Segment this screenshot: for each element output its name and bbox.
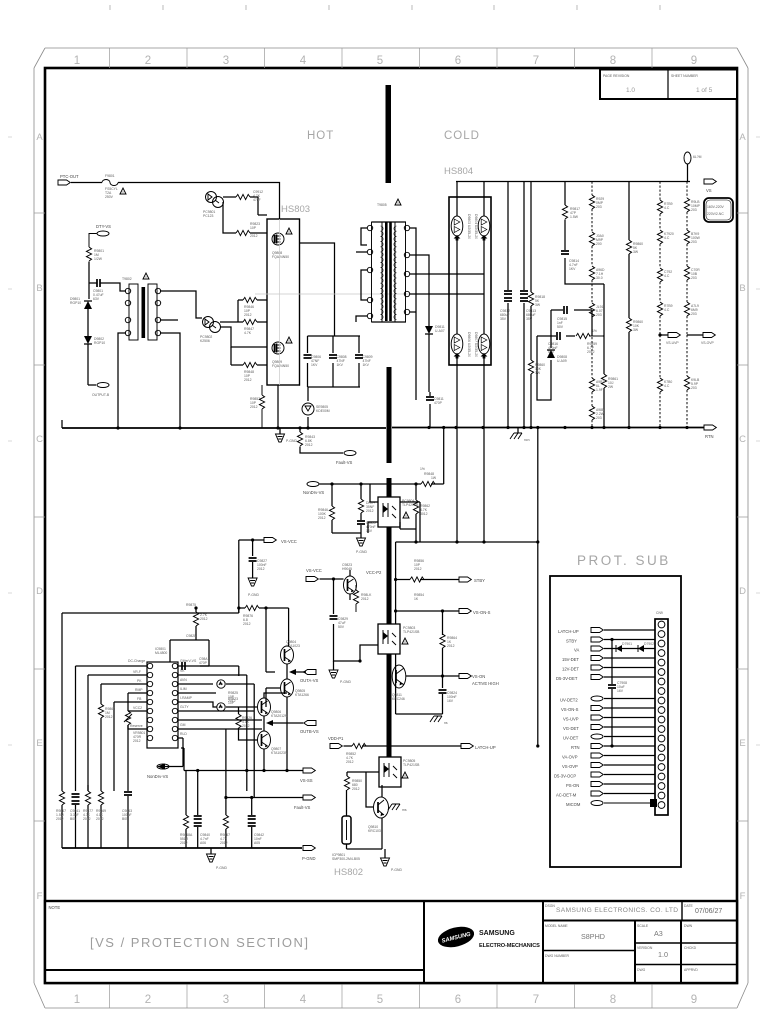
svg-text:1K: 1K bbox=[414, 597, 419, 601]
svg-text:PK: PK bbox=[137, 679, 142, 683]
svg-text:50V: 50V bbox=[338, 625, 345, 629]
svg-text:D7901: D7901 bbox=[622, 642, 632, 646]
node VS-UVP ps bbox=[563, 715, 655, 722]
svg-text:16V: 16V bbox=[447, 699, 454, 703]
resistor R9856 labels bbox=[414, 559, 424, 571]
svg-text:D5-3V-OCP: D5-3V-OCP bbox=[554, 774, 576, 779]
svg-text:07/06/27: 07/06/27 bbox=[695, 908, 722, 915]
svg-text:VCC-P2: VCC-P2 bbox=[366, 570, 382, 575]
svg-text:MICOM: MICOM bbox=[566, 802, 581, 807]
svg-text:KRC103: KRC103 bbox=[368, 829, 381, 833]
svg-text:A3: A3 bbox=[654, 929, 663, 938]
diode D9802 bbox=[84, 330, 105, 385]
wire Q drain to rail bbox=[277, 385, 279, 428]
svg-text:KTA1023: KTA1023 bbox=[286, 644, 300, 648]
svg-text:TLP421SB: TLP421SB bbox=[402, 503, 419, 507]
P-GND symbol ic rail bbox=[207, 848, 228, 870]
chassis ground mid bbox=[430, 716, 448, 725]
svg-text:3W: 3W bbox=[535, 371, 541, 375]
node NonDrv-VS bbox=[303, 482, 324, 496]
svg-text:U-A09: U-A09 bbox=[557, 359, 567, 363]
capacitor C9808 bbox=[329, 336, 347, 387]
optocoupler PC9803 bbox=[378, 624, 420, 654]
capacitor C9827 bbox=[249, 558, 268, 578]
svg-text:D5-3V-DET: D5-3V-DET bbox=[556, 676, 578, 681]
capacitor C9840 bbox=[194, 791, 210, 848]
capacitor C9815 bbox=[551, 306, 592, 329]
svg-text:KTA1266: KTA1266 bbox=[295, 693, 309, 697]
svg-text:2: 2 bbox=[145, 55, 151, 67]
svg-text:1: 1 bbox=[74, 994, 80, 1006]
resistor R9861 bbox=[601, 336, 618, 427]
svg-text:DTY-VS: DTY-VS bbox=[96, 224, 111, 229]
svg-text:4: 4 bbox=[300, 55, 307, 67]
node VS-ON-S bbox=[459, 609, 491, 616]
wire x266 vertical bbox=[266, 608, 275, 672]
node PTC-OUT bbox=[58, 174, 79, 185]
node VS-OVP ps bbox=[562, 763, 655, 770]
fuse F9801 bbox=[102, 174, 126, 199]
node VS-ON-S ps bbox=[561, 706, 655, 713]
transformer T9805 bbox=[367, 199, 409, 322]
resistor R9847b bbox=[358, 499, 375, 520]
svg-text:I-RAMP: I-RAMP bbox=[180, 696, 193, 700]
node UV-DET2 ps bbox=[560, 696, 655, 703]
node OUTPUT stub bbox=[88, 383, 110, 398]
svg-text:FQA24N50: FQA24N50 bbox=[272, 364, 289, 368]
svg-text:VK: VK bbox=[180, 669, 185, 673]
svg-text:PS-ON: PS-ON bbox=[566, 783, 579, 788]
resistor R9848 bbox=[231, 362, 267, 382]
IC right pins bbox=[172, 663, 177, 740]
isolation bar (HOT/COLD divider) top bbox=[386, 85, 392, 183]
svg-text:P-GND: P-GND bbox=[391, 868, 402, 872]
capacitor C9841 bbox=[70, 794, 80, 848]
svg-text:NonDrv-VS: NonDrv-VS bbox=[303, 490, 324, 495]
wire gnd row von bbox=[396, 713, 443, 715]
node AC-DET-M ps bbox=[556, 791, 655, 798]
note cell bbox=[45, 901, 424, 970]
wire C9801 to T9802 bbox=[110, 283, 126, 291]
svg-text:STBY: STBY bbox=[566, 639, 577, 644]
svg-text:DC-Charge: DC-Charge bbox=[128, 659, 145, 663]
voltage badge bbox=[704, 198, 733, 222]
connector CN9 bbox=[655, 611, 668, 815]
resistor R9859 dashed bbox=[576, 329, 603, 354]
svg-text:P-GND: P-GND bbox=[340, 680, 351, 684]
svg-text:VS-UVP: VS-UVP bbox=[666, 341, 679, 345]
svg-text:Fault-VS: Fault-VS bbox=[294, 805, 310, 810]
svg-text:2012: 2012 bbox=[414, 567, 422, 571]
diode D9811 bbox=[425, 322, 445, 392]
svg-text:35V: 35V bbox=[500, 317, 507, 321]
svg-text:3: 3 bbox=[223, 55, 229, 67]
RTN rail bottom bbox=[392, 427, 704, 429]
svg-text:DWN: DWN bbox=[684, 924, 693, 928]
diode D9801 bbox=[70, 283, 92, 330]
capacitor C9814 bbox=[561, 220, 604, 285]
svg-text:1.0: 1.0 bbox=[658, 950, 668, 959]
svg-text:CHCKD: CHCKD bbox=[684, 946, 697, 950]
svg-text:AVN: AVN bbox=[180, 678, 187, 682]
node 12V-DET ps bbox=[562, 665, 655, 672]
trimmer VR9801 bbox=[124, 711, 147, 743]
svg-text:D7902: D7902 bbox=[644, 642, 654, 646]
resistor R9822 bbox=[236, 190, 263, 202]
wire vertical x238.8 bbox=[238, 540, 240, 613]
svg-text:F: F bbox=[740, 891, 746, 902]
svg-text:ACTIVE HIGH: ACTIVE HIGH bbox=[472, 681, 499, 686]
transistor Q9804 bbox=[281, 640, 300, 664]
resistor R9875 bbox=[186, 603, 208, 626]
svg-text:H9045: H9045 bbox=[342, 567, 352, 571]
svg-text:SMP300-2M4-B05: SMP300-2M4-B05 bbox=[332, 857, 360, 861]
resistor R9817 bbox=[562, 182, 580, 220]
resistor R9826 bbox=[236, 707, 257, 740]
svg-text:3W: 3W bbox=[633, 250, 639, 254]
svg-text:RGP10: RGP10 bbox=[70, 301, 81, 305]
resistor R9849 bbox=[420, 467, 437, 487]
resistor column x592 bbox=[589, 182, 605, 428]
svg-text:15V-DET: 15V-DET bbox=[562, 657, 579, 662]
svg-text:VS-ON: VS-ON bbox=[472, 674, 485, 679]
resistor R9869 bbox=[96, 791, 106, 848]
svg-text:VS-ON-S: VS-ON-S bbox=[473, 610, 491, 615]
svg-text:OUTPUT-B: OUTPUT-B bbox=[92, 393, 110, 397]
svg-text:203: 203 bbox=[596, 313, 602, 317]
svg-text:T9805: T9805 bbox=[377, 203, 387, 207]
wire top bus to IC bbox=[62, 608, 239, 791]
wire junction vertical bbox=[230, 347, 232, 365]
svg-text:2012: 2012 bbox=[105, 715, 113, 719]
node Fault-VS ic bbox=[294, 795, 315, 810]
svg-text:4.C: 4.C bbox=[664, 206, 670, 210]
HS803 box bbox=[267, 219, 300, 385]
label ICP bbox=[332, 853, 360, 861]
optocoupler PC9805 bbox=[379, 757, 420, 787]
svg-text:2012: 2012 bbox=[83, 817, 91, 821]
mosfet Q9808 bbox=[272, 228, 292, 259]
svg-text:2012: 2012 bbox=[305, 443, 313, 447]
node VS-SS bbox=[300, 768, 315, 783]
svg-text:4.C: 4.C bbox=[664, 384, 670, 388]
svg-text:F: F bbox=[37, 891, 43, 902]
svg-text:1W: 1W bbox=[431, 476, 437, 480]
svg-text:STBY: STBY bbox=[474, 578, 485, 583]
svg-text:VS: VS bbox=[706, 188, 712, 193]
svg-text:2012: 2012 bbox=[243, 622, 251, 626]
svg-text:1%: 1% bbox=[592, 329, 597, 333]
svg-text:200: 200 bbox=[596, 242, 602, 246]
svg-text:A: A bbox=[739, 132, 746, 143]
svg-text:DWG: DWG bbox=[637, 968, 646, 972]
fuse ICP top right bbox=[684, 152, 702, 182]
svg-text:6: 6 bbox=[455, 55, 461, 67]
svg-text:2012: 2012 bbox=[346, 760, 354, 764]
svg-text:D9807 U20EL20: D9807 U20EL20 bbox=[474, 332, 478, 357]
svg-text:P-GND: P-GND bbox=[248, 593, 259, 597]
svg-text:PAGE REVISION: PAGE REVISION bbox=[603, 74, 630, 78]
svg-text:OUTA-VS: OUTA-VS bbox=[300, 678, 319, 683]
svg-text:VS-ON-S: VS-ON-S bbox=[561, 707, 579, 712]
shunt regulator SE9805 bbox=[302, 387, 330, 428]
wire IC left pin rows bbox=[76, 666, 148, 711]
svg-text:3: 3 bbox=[223, 994, 229, 1006]
resistor R9846 bbox=[243, 297, 257, 317]
band numbers bbox=[74, 55, 697, 1006]
resistor R9843 below rail bbox=[297, 428, 315, 447]
svg-text:COLD: COLD bbox=[444, 130, 480, 142]
bottom row2: resistor R9868A bbox=[180, 771, 193, 849]
svg-text:VR-F: VR-F bbox=[133, 670, 141, 674]
transistor Q9809 bbox=[334, 563, 357, 600]
svg-text:RMP: RMP bbox=[135, 688, 143, 692]
capacitor C9816 horizontal bbox=[537, 332, 575, 354]
svg-text:VS-UVP: VS-UVP bbox=[563, 717, 579, 722]
svg-text:KRC246: KRC246 bbox=[392, 697, 405, 701]
svg-text:12V-DET: 12V-DET bbox=[562, 667, 579, 672]
svg-text:160V-220V: 160V-220V bbox=[707, 205, 725, 209]
wire R9876 row bbox=[239, 608, 289, 613]
wire latch row bbox=[344, 745, 462, 747]
svg-text:3W: 3W bbox=[535, 303, 541, 307]
resistor R9876 bbox=[243, 605, 259, 626]
wire T9805 right to HS804 bbox=[410, 228, 449, 400]
svg-text:RLD: RLD bbox=[180, 732, 187, 736]
svg-text:2012: 2012 bbox=[56, 817, 64, 821]
svg-text:50V: 50V bbox=[557, 325, 564, 329]
node VG-DET ps bbox=[563, 725, 655, 732]
svg-text:10P: 10P bbox=[228, 701, 235, 705]
right block lines bbox=[543, 920, 737, 922]
svg-text:1KV: 1KV bbox=[363, 363, 370, 367]
wire fuse to HS803 bbox=[118, 183, 280, 220]
wire left columns down bbox=[76, 666, 129, 791]
svg-text:P-GND: P-GND bbox=[356, 550, 367, 554]
svg-text:HS804: HS804 bbox=[444, 166, 473, 177]
svg-text:5: 5 bbox=[377, 994, 383, 1006]
wire opto1 connections bbox=[368, 484, 420, 542]
svg-text:8: 8 bbox=[610, 55, 616, 67]
wire icp bbox=[347, 772, 383, 849]
svg-text:NonDrv-VS: NonDrv-VS bbox=[147, 774, 168, 779]
node DTY-VS bbox=[89, 224, 111, 247]
svg-text:APPRVD: APPRVD bbox=[684, 968, 698, 972]
node 15V-DET ps bbox=[562, 656, 655, 663]
wires PC9802 to HS803 inputs bbox=[220, 300, 267, 347]
wire Fault-VS row bbox=[226, 729, 303, 812]
resistor R9853 bbox=[353, 585, 372, 612]
wire x288.6 vertical bbox=[288, 608, 290, 646]
svg-text:3012: 3012 bbox=[420, 512, 428, 516]
svg-text:4.C: 4.C bbox=[664, 274, 670, 278]
svg-text:ms: ms bbox=[402, 808, 407, 812]
P-GND vcc1 bbox=[248, 578, 259, 597]
svg-text:2012: 2012 bbox=[318, 516, 326, 520]
svg-text:10P: 10P bbox=[250, 226, 257, 230]
svg-text:1: 1 bbox=[74, 55, 80, 67]
P-GND hs802 bbox=[381, 849, 403, 872]
svg-text:VA-OVP: VA-OVP bbox=[562, 755, 578, 760]
svg-text:PC123: PC123 bbox=[203, 214, 213, 218]
resistor column x687 bbox=[684, 182, 700, 428]
wire VS-ON row bbox=[406, 676, 459, 688]
node VS-UVP bbox=[658, 333, 680, 346]
svg-text:ncn: ncn bbox=[524, 438, 530, 442]
svg-text:P-GND: P-GND bbox=[286, 439, 297, 443]
optocoupler PC9801 bbox=[203, 192, 224, 219]
resistor R9850 bbox=[344, 772, 379, 791]
svg-text:E: E bbox=[36, 738, 42, 749]
wire gnd row nondrv bbox=[332, 532, 361, 534]
svg-text:VS-OVP: VS-OVP bbox=[562, 764, 578, 769]
svg-text:ELECTRO-MECHANICS: ELECTRO-MECHANICS bbox=[479, 943, 540, 949]
wire nondrv arrow to pin bbox=[157, 738, 183, 770]
capacitor C9843 bbox=[122, 725, 132, 848]
node LATCH-UP ps bbox=[558, 628, 655, 635]
wire STBY row bbox=[396, 579, 459, 581]
svg-text:F9801: F9801 bbox=[105, 174, 115, 178]
svg-text:2012: 2012 bbox=[220, 841, 228, 845]
wire HS803 to caps row bbox=[299, 243, 360, 387]
IC ground rail bbox=[62, 847, 302, 849]
svg-text:203: 203 bbox=[691, 276, 697, 280]
svg-text:C9828: C9828 bbox=[186, 634, 196, 638]
svg-text:[VS / PROTECTION SECTION]: [VS / PROTECTION SECTION] bbox=[90, 935, 310, 950]
HS804 box bbox=[449, 197, 491, 365]
node VS top bbox=[704, 179, 716, 193]
node OUTB-VS bbox=[266, 720, 319, 734]
svg-text:K2506: K2506 bbox=[200, 339, 210, 343]
svg-text:D9803 U20EL20: D9803 U20EL20 bbox=[467, 214, 471, 239]
svg-text:4.C: 4.C bbox=[664, 236, 670, 240]
optocoupler PC9802 bbox=[200, 317, 221, 344]
wire rail stubs bbox=[61, 420, 63, 428]
node VS-VCC 2 bbox=[306, 568, 335, 582]
svg-text:4.7K: 4.7K bbox=[244, 331, 252, 335]
wire T9802 left lower pin to rail bbox=[118, 333, 126, 428]
svg-text:Fault-VS: Fault-VS bbox=[336, 460, 352, 465]
svg-text:35V: 35V bbox=[526, 317, 533, 321]
svg-text:HS803: HS803 bbox=[281, 204, 310, 215]
P-GND nondrv bbox=[356, 533, 367, 554]
wires inside HS804 bbox=[449, 182, 484, 366]
wire VS-ON-S row bbox=[396, 611, 459, 635]
svg-text:RTN: RTN bbox=[571, 745, 580, 750]
node VA ps with diodes D7901 D7902 bbox=[574, 642, 655, 653]
svg-text:GLTY: GLTY bbox=[180, 705, 189, 709]
svg-text:T9802: T9802 bbox=[122, 277, 132, 281]
svg-text:VS-VCC: VS-VCC bbox=[306, 568, 322, 573]
wire IC right rows bbox=[178, 666, 262, 729]
svg-text:VG-DET: VG-DET bbox=[563, 726, 579, 731]
svg-text:470P: 470P bbox=[199, 661, 208, 665]
svg-text:1KV: 1KV bbox=[569, 267, 576, 271]
svg-text:SAMSUNG: SAMSUNG bbox=[479, 930, 515, 937]
capacitor C9829 bbox=[330, 579, 361, 661]
node OUTA-VS bbox=[289, 669, 319, 683]
svg-text:VCC2: VCC2 bbox=[133, 706, 142, 710]
wire VS-SS row bbox=[181, 748, 303, 791]
svg-text:2012: 2012 bbox=[242, 724, 250, 728]
svg-text:DWG NUMBER: DWG NUMBER bbox=[545, 954, 569, 958]
resistor R9823 bbox=[236, 222, 260, 238]
svg-text:KDE00M: KDE00M bbox=[316, 409, 330, 413]
resistor R9865 bbox=[98, 704, 115, 719]
svg-text:AC-DET-M: AC-DET-M bbox=[556, 793, 577, 798]
node STBY ps bbox=[566, 637, 655, 644]
transistor Q9806 bbox=[258, 693, 288, 731]
resistor column x629 bbox=[626, 182, 643, 428]
svg-text:LATCH-UP: LATCH-UP bbox=[475, 745, 496, 750]
svg-text:2: 2 bbox=[145, 994, 151, 1006]
svg-text:DSGN: DSGN bbox=[545, 904, 555, 908]
resistor R9877 bbox=[83, 785, 93, 848]
node MICOM ps bbox=[566, 799, 657, 807]
svg-text:ML4800: ML4800 bbox=[155, 651, 167, 655]
svg-text:FB: FB bbox=[137, 697, 142, 701]
P-GND vcc2 bbox=[329, 661, 351, 684]
capacitor C9824 bbox=[439, 690, 458, 714]
svg-text:A05: A05 bbox=[254, 841, 260, 845]
svg-text:2012: 2012 bbox=[244, 378, 252, 382]
svg-text:B05: B05 bbox=[70, 817, 76, 821]
svg-text:CN9: CN9 bbox=[656, 611, 663, 615]
svg-text:203: 203 bbox=[596, 205, 602, 209]
svg-text:1.0: 1.0 bbox=[626, 87, 635, 94]
svg-text:1KV: 1KV bbox=[311, 363, 318, 367]
svg-text:4: 4 bbox=[300, 994, 307, 1006]
svg-text:2012: 2012 bbox=[250, 234, 258, 238]
svg-text:FQA24N50: FQA24N50 bbox=[272, 255, 289, 259]
test point R9823t bbox=[217, 697, 257, 711]
svg-text:1 of 5: 1 of 5 bbox=[696, 87, 713, 94]
svg-text:SHEET NUMBER: SHEET NUMBER bbox=[671, 74, 698, 78]
transistor Q9811 bbox=[392, 665, 406, 701]
svg-text:2012: 2012 bbox=[587, 350, 595, 354]
resistor R9867b bbox=[220, 798, 230, 849]
svg-text:9: 9 bbox=[691, 55, 697, 67]
svg-text:VERSION: VERSION bbox=[637, 946, 653, 950]
svg-text:D: D bbox=[36, 586, 43, 597]
capacitor C9812 bbox=[500, 182, 512, 428]
svg-text:A06: A06 bbox=[200, 841, 206, 845]
svg-text:2012: 2012 bbox=[352, 787, 360, 791]
svg-text:RGP10: RGP10 bbox=[94, 341, 105, 345]
svg-text:GM: GM bbox=[180, 723, 186, 727]
svg-text:C: C bbox=[739, 434, 746, 445]
optocoupler PC9804-1 bbox=[378, 497, 419, 527]
svg-text:2012: 2012 bbox=[361, 597, 369, 601]
resistor R9846b bbox=[318, 506, 335, 533]
svg-text:7: 7 bbox=[533, 55, 539, 67]
HS804 top rail bbox=[456, 181, 690, 183]
test point R9825 bbox=[217, 680, 254, 703]
diode D9808 bbox=[537, 310, 567, 400]
transistor Q9805 bbox=[281, 664, 309, 771]
svg-text:B: B bbox=[739, 283, 745, 294]
svg-text:2012: 2012 bbox=[96, 817, 104, 821]
svg-text:E: E bbox=[739, 738, 745, 749]
resistor column x660 bbox=[657, 182, 674, 428]
samsung logo bbox=[436, 923, 476, 950]
svg-text:B: B bbox=[36, 283, 42, 294]
svg-text:UV-DET: UV-DET bbox=[563, 736, 579, 741]
svg-text:B05: B05 bbox=[122, 817, 128, 821]
svg-text:TLP421SB: TLP421SB bbox=[403, 763, 420, 767]
transformer T9802 bbox=[122, 273, 161, 340]
svg-text:TLP421SB: TLP421SB bbox=[403, 630, 420, 634]
